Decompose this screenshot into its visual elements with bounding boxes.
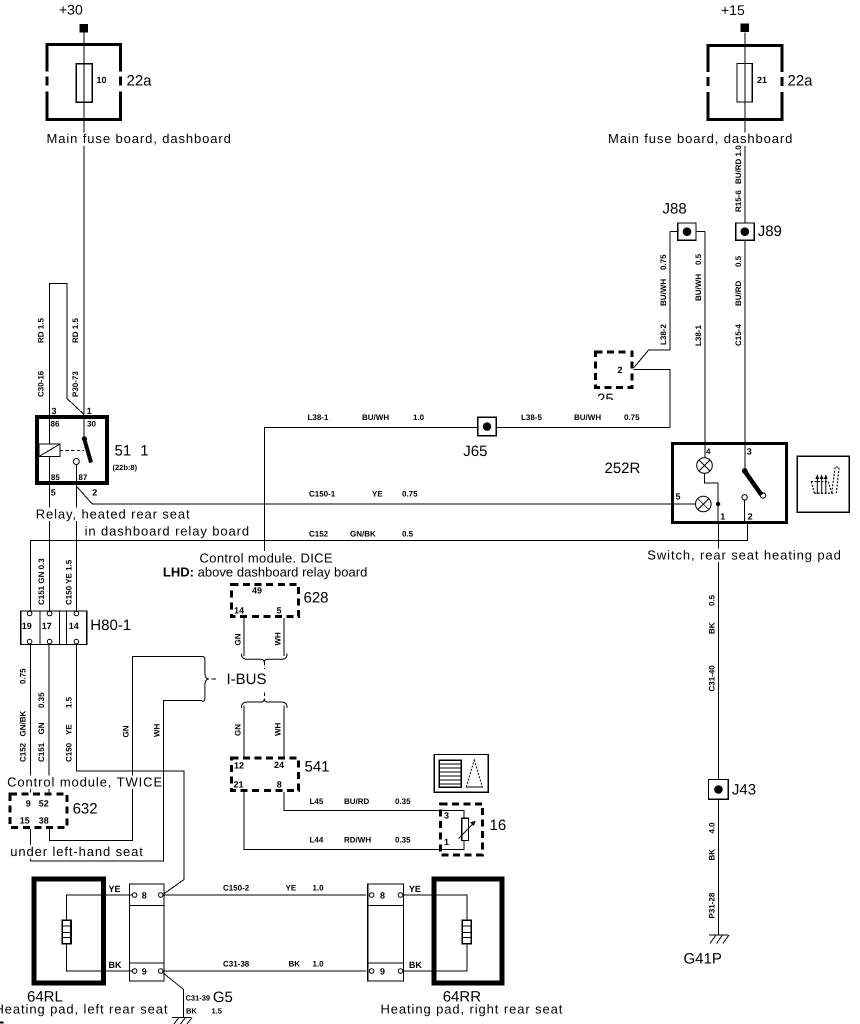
svg-text:BU/RD 1.0: BU/RD 1.0 [734,145,743,184]
pad connector left box [130,884,165,981]
wire C150-2 YE 1.0 [163,894,366,896]
control module 541 dashed box [231,758,298,791]
caption: Main fuse board, dashboard (right) [607,133,793,147]
svg-text:5: 5 [51,488,56,498]
svg-text:Relay, heated rear seat: Relay, heated rear seat [36,507,191,522]
wire element top to right connector pin 8 [403,895,467,920]
svg-text:5: 5 [277,605,282,615]
svg-text:WH: WH [274,722,283,736]
svg-text:5: 5 [676,492,681,502]
svg-text:YE: YE [109,884,121,894]
svg-text:0.75: 0.75 [19,668,28,684]
svg-text:21: 21 [234,780,244,790]
pad connector right box [368,884,404,981]
svg-text:BU/RD: BU/RD [734,280,743,306]
lamp 1 (illumination) [697,458,713,474]
svg-text:YE: YE [372,490,383,499]
svg-text:BK: BK [708,849,717,861]
wire L38-1 / L38-5 horizontal row to DICE pin 49 [264,428,670,552]
svg-text:Control module, TWICE: Control module, TWICE [7,775,163,790]
svg-text:8: 8 [380,891,385,901]
svg-text:1: 1 [140,443,148,460]
svg-text:0.5: 0.5 [734,255,743,267]
svg-text:0.75: 0.75 [624,413,640,422]
svg-text:0.5: 0.5 [694,253,703,265]
svg-text:(22b:8): (22b:8) [113,463,138,472]
svg-text:9: 9 [142,967,147,977]
caption: Main fuse board, dashboard (left) [46,133,232,147]
svg-text:0.35: 0.35 [395,797,411,806]
svg-text:1.5: 1.5 [65,696,74,708]
svg-text:H80-1: H80-1 [90,617,131,634]
svg-text:Switch, rear seat heating pad: Switch, rear seat heating pad [647,548,841,563]
svg-text:J88: J88 [663,201,687,218]
svg-text:I-BUS: I-BUS [227,671,267,688]
connector J89 [736,223,754,240]
svg-text:WH: WH [274,632,283,646]
svg-text:85: 85 [51,473,60,482]
caption: LHD: above dashboard relay board [162,566,367,580]
svg-text:C30-16: C30-16 [37,370,46,397]
svg-text:2: 2 [618,365,623,375]
temperature sensor 16 dashed box [440,804,482,855]
wire C152 GN/BK 0.5 from switch pin 2 to H80-1 pin 19 [30,524,747,611]
svg-text:YE: YE [286,884,297,893]
wire pin 3 to contact [744,442,746,469]
wire contact to pin 2 [744,500,746,524]
svg-text:86: 86 [51,420,60,429]
junction dot lamps to pin 1 [716,502,720,506]
wire relay pin 2 diagonal to C150-1 row [76,486,695,504]
connector J65 [478,417,497,436]
wire WH from DICE pin 5 to I-bus brace [283,618,285,656]
svg-text:Heating pad, right rear seat: Heating pad, right rear seat [381,1002,564,1017]
I-bus dashed link lower [263,693,265,700]
fuse element 21 [737,64,752,103]
svg-text:J43: J43 [732,782,756,799]
svg-text:1.0: 1.0 [413,413,425,422]
svg-text:+15: +15 [721,2,745,18]
ground symbol G41P [709,935,729,944]
svg-text:0.5: 0.5 [402,530,414,539]
connector J88 [678,223,696,240]
svg-text:BK: BK [109,960,122,970]
fuse box 22a (main fuse board, right) [704,46,786,120]
svg-text:L38-2: L38-2 [659,324,668,345]
svg-text:12: 12 [234,761,244,771]
svg-text:4: 4 [706,447,711,456]
svg-text:in dashboard relay board: in dashboard relay board [85,524,250,539]
connector J43 [709,780,729,800]
wire element top to pad connector pin 8 [67,895,133,920]
svg-text:14: 14 [234,605,244,615]
fuse element 10 [76,64,92,102]
svg-text:38: 38 [39,816,49,826]
svg-text:1.5: 1.5 [212,1007,222,1016]
svg-text:14: 14 [69,621,79,631]
relay contact arm pin 30 to 87 [73,415,91,485]
svg-text:3: 3 [444,811,449,821]
caption: under left-hand seat [9,845,149,859]
stray mark bottom-left corner [0,1022,4,1024]
terminal square +30 [80,24,89,33]
svg-text:C31-38: C31-38 [223,960,250,969]
svg-text:1: 1 [87,406,92,416]
svg-text:RD 1.5: RD 1.5 [37,318,46,343]
svg-text:22a: 22a [127,72,153,89]
svg-text:BU/WH: BU/WH [574,413,601,422]
switch contact: fixed blob pin 3 [742,468,748,474]
svg-text:BK: BK [289,960,301,969]
lamp 2 (indicator) [696,496,712,512]
caption: Control module. DICE [199,552,334,566]
wire relay pin 2/87 down to H80-1 pin 14 [75,485,77,612]
left connector terminal circles [132,893,163,974]
svg-text:15: 15 [20,816,30,826]
wire H80-1 pin 17 down to TWICE pin 52 [48,644,50,793]
I-bus dashed link upper [263,662,265,669]
wire into lamp 2 from pin 5 [671,503,695,505]
heating pad 64RR box [434,879,502,983]
svg-text:BU/WH: BU/WH [694,274,703,301]
wire WH from brace down to 541 pin 24 [283,706,285,757]
terminal square +15 [741,24,750,33]
svg-text:BU/RD: BU/RD [344,797,370,806]
bus collector brace upper [241,654,287,663]
bus collector brace lower [241,699,287,708]
ground symbol G5 [172,1018,192,1024]
svg-text:2: 2 [748,512,753,522]
item 25 dashed box [596,352,633,387]
svg-text:19: 19 [22,621,32,631]
svg-text:8: 8 [277,780,282,790]
svg-text:8: 8 [142,891,147,901]
thermistor element [459,818,476,840]
svg-text:BU/WH: BU/WH [659,279,668,306]
wire element bottom to pad connector pin 9 [67,944,133,971]
svg-text:0.75: 0.75 [659,254,668,270]
svg-text:Main fuse board, dashboard: Main fuse board, dashboard [608,131,793,146]
svg-text:632: 632 [73,800,98,817]
svg-text:YE: YE [65,724,74,735]
svg-text:4.0: 4.0 [708,822,717,834]
svg-text:51: 51 [115,443,132,460]
svg-text:C150-1: C150-1 [309,490,336,499]
svg-text:C150 YE 1.5: C150 YE 1.5 [65,559,74,605]
svg-text:C152: C152 [19,742,28,762]
wire L44 RD/WH from 541 pin 21 to sensor pin 1 [244,792,464,849]
wire from item 25 pin 2 down to L38 row [634,369,670,427]
svg-text:C31-40: C31-40 [708,665,717,692]
wire WH from TWICE to I-bus brace (left) [31,701,202,862]
svg-text:RD/WH: RD/WH [344,836,371,845]
svg-text:3: 3 [52,406,57,416]
caption: Relay, heated rear seat [35,508,193,522]
wire C31-38 BK 1.0 [163,970,366,972]
fuse box 22a (main fuse board, left) [43,45,125,120]
I-BUS left brace [202,657,209,702]
svg-text:9: 9 [26,798,31,808]
svg-text:BK: BK [708,622,717,634]
svg-text:C151 GN 0.3: C151 GN 0.3 [37,558,46,605]
right connector terminal circles [369,893,403,974]
switch arm (open) [745,472,761,495]
wire GN from DICE pin 14 to I-bus brace [243,618,245,656]
relay coil [39,415,60,485]
wire relay pin 5 down to H80-1 pin 17 [48,485,50,612]
svg-text:WH: WH [153,723,162,737]
wire bar under J88 joining the two branch wires [670,231,705,233]
wire from +15 terminal through fuse down to J89 and switch pin 3 [744,33,746,443]
heating element 64RL [62,920,71,943]
svg-text:J89: J89 [758,223,782,240]
wire from +30 terminal through fuse down to relay pin 1 [83,33,85,415]
wire BK from switch pin 1 down to ground G41P [718,524,720,935]
svg-text:L38-1: L38-1 [308,413,329,422]
svg-text:49: 49 [252,586,262,596]
svg-text:Control module. DICE: Control module. DICE [200,551,333,566]
control module TWICE 632 dashed box [10,794,67,827]
svg-text:L45: L45 [310,797,324,806]
svg-text:2: 2 [92,488,97,498]
wire junction down pin 1 [717,504,719,524]
wire GN from TWICE to I-bus brace (left) [49,657,202,841]
svg-text:G41P: G41P [684,951,722,968]
connector H80-1 box [21,611,87,645]
svg-text:BK: BK [186,1007,197,1016]
seat heater icon box [797,456,849,512]
wire H80-1 pin 19 down to TWICE pin 9 [29,644,31,793]
svg-text:24: 24 [274,760,284,770]
heating pad 64RL box [34,879,103,983]
svg-text:C151: C151 [37,742,46,762]
svg-text:BU/WH: BU/WH [362,413,389,422]
svg-text:GN/BK: GN/BK [19,711,28,737]
caption: Switch, rear seat heating pad [647,549,845,563]
wire L45 BU/RD from 541 pin 8 to sensor pin 3 [284,792,464,818]
svg-text:R15-6: R15-6 [734,190,743,212]
svg-text:G5: G5 [213,989,233,1006]
svg-text:Heating pad, left rear seat: Heating pad, left rear seat [0,1002,168,1017]
svg-text:GN/BK: GN/BK [350,530,376,539]
svg-text:GN: GN [37,722,46,734]
svg-text:GN: GN [234,633,243,645]
arm end circle [760,493,765,498]
svg-text:52: 52 [39,798,49,808]
svg-text:YE: YE [409,884,421,894]
svg-text:628: 628 [304,590,329,607]
svg-text:BK: BK [409,960,422,970]
svg-text:RD 1.5: RD 1.5 [71,318,80,343]
svg-text:17: 17 [42,621,52,631]
svg-text:1.0: 1.0 [313,960,325,969]
svg-text:J65: J65 [463,443,487,460]
svg-text:L38-5: L38-5 [521,413,542,422]
svg-text:1.0: 1.0 [313,884,325,893]
wire L38-1 BU/WH 0.5 from J88 down to switch pin 4 [704,232,706,443]
svg-text:1: 1 [444,837,449,847]
svg-text:252R: 252R [605,460,641,477]
svg-text:0.75: 0.75 [402,490,418,499]
I-BUS tick [212,678,217,680]
wire from relay pin 3 up and over (C30-16 / P30-73 loop) [49,284,84,415]
svg-text:1: 1 [720,512,725,522]
svg-text:87: 87 [78,473,87,482]
wire H80-1 pin 14 down, C150 YE to pad connector [76,644,184,895]
H80-1 terminal circles [27,611,78,644]
svg-text:21: 21 [757,75,767,85]
svg-text:541: 541 [305,759,330,776]
svg-text:0.35: 0.35 [395,836,411,845]
svg-text:GN: GN [234,724,243,736]
svg-text:P30-73: P30-73 [71,371,80,397]
svg-text:P31-28: P31-28 [708,892,717,918]
svg-text:22a: 22a [788,72,814,89]
svg-text:C150: C150 [65,742,74,762]
relay 51 box [37,417,107,483]
svg-text:30: 30 [87,420,96,429]
wire element bottom to right connector pin 9 [403,944,467,971]
svg-text:0.5: 0.5 [708,594,717,606]
svg-text:L44: L44 [310,836,324,845]
svg-text:9: 9 [380,967,385,977]
svg-text:16: 16 [490,817,507,834]
svg-text:C152: C152 [309,530,329,539]
wire label R15-6 BU/RD 1.0 [734,145,743,212]
wire pin 4 into lamp 1 [704,442,706,458]
svg-text:3: 3 [747,447,752,457]
switch 252R box [673,444,787,523]
wire GN from brace down to 541 pin 12 [243,706,245,757]
svg-text:C15-4: C15-4 [734,324,743,346]
caption: Control module, TWICE [6,776,159,790]
fixed contact circle pin 2 [742,495,747,500]
heating element 64RR [462,920,471,943]
wire lamp1 to junction [705,473,719,504]
svg-text:GN: GN [121,725,130,737]
display/diagnostic icon box [434,754,488,792]
svg-text:LHD: above dashboard relay boa: LHD: above dashboard relay board [163,565,367,580]
control module DICE 628 dashed box [231,585,298,617]
svg-text:under left-hand seat: under left-hand seat [10,844,144,859]
svg-text:0.35: 0.35 [37,692,46,708]
svg-text:+30: +30 [59,2,83,18]
svg-text:C31-39: C31-39 [186,994,211,1003]
wire L38-2 BU/WH 0.75 from J88 down to item 25 [634,232,670,368]
svg-text:Main fuse board, dashboard: Main fuse board, dashboard [47,131,232,146]
svg-text:10: 10 [97,75,107,85]
relay actuating dashed link [60,449,84,451]
wire to ground G5 from pin 9 [163,973,184,1018]
svg-text:L38-1: L38-1 [694,325,703,346]
svg-text:C150-2: C150-2 [223,884,250,893]
